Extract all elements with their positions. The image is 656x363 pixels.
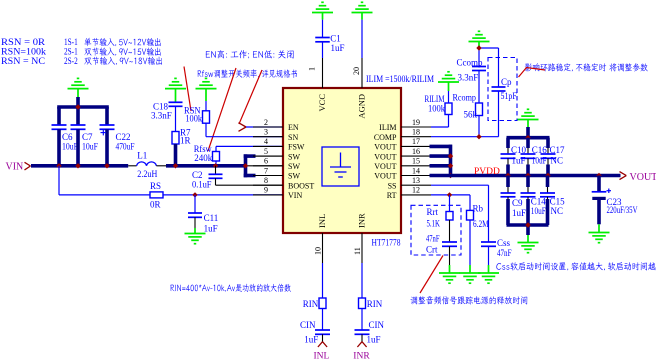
pin 7 SW [253,175,283,177]
capacitor C15 NC [546,176,550,188]
svg-text:10uF: 10uF [62,142,78,152]
svg-text:2S-2: 2S-2 [64,56,78,66]
capacitor C1 1uF [322,20,324,38]
dashed box around Cp [488,58,517,121]
svg-text:RIN: RIN [303,299,319,309]
ground above RILIM [438,81,459,83]
op-amp U1 HT71778 body [283,88,401,233]
svg-text:1uF: 1uF [331,43,345,53]
svg-text:VIN: VIN [6,161,24,172]
capacitor C10 1uF [506,138,510,148]
svg-text:47nF: 47nF [426,234,440,244]
junction VIN/C22 [104,163,109,168]
svg-text:100k: 100k [428,103,445,113]
svg-text:RT: RT [387,191,397,200]
pin 14 VOUT [401,175,431,177]
svg-text:9: 9 [264,186,268,195]
pin 11 INR [361,233,363,263]
connector EN input [239,123,247,127]
wire SW bracket to pins 5,6,7 [244,154,248,177]
junction comp top [476,45,481,50]
capacitor C2 0.1uF [215,166,217,175]
ground below output caps [527,235,529,243]
capacitor Ccomp 3.3nF [472,66,486,68]
wire RSN to SN pin3 [205,123,207,137]
svg-text:1uF: 1uF [204,223,218,233]
svg-text:C6: C6 [62,132,73,142]
svg-text:3: 3 [264,128,268,137]
wire RS to VIN pin9 [163,194,283,196]
svg-text:Crt: Crt [426,244,438,254]
svg-text:16: 16 [412,147,420,156]
IC internal ground symbol [322,147,359,186]
svg-text:NC: NC [551,206,564,216]
capacitor C14 10uF [526,176,530,188]
svg-text:VOUT: VOUT [630,172,656,183]
svg-text:Ccomp: Ccomp [457,58,483,68]
ground above AGND pin20 [352,12,373,14]
resistor RS 0R [150,192,163,198]
pin 5 SW [253,155,283,157]
svg-text:Cp: Cp [501,77,512,87]
resistor RIN (INL) [319,298,326,309]
capacitor Crt 47nF [449,220,451,242]
ground below C23 [598,224,600,232]
svg-text:8: 8 [264,176,268,185]
ground above output caps [518,119,539,121]
resistor Rrt 5.1K [449,195,451,212]
pin 1 VCC [322,58,324,88]
callout line to Crt [420,256,443,294]
svg-text:EN: EN [288,123,299,132]
svg-text:7: 7 [264,166,268,175]
svg-text:20: 20 [352,67,361,75]
svg-text:11: 11 [353,247,362,255]
svg-text:C17: C17 [550,145,566,155]
capacitor C6 [52,124,67,126]
svg-text:1: 1 [308,67,317,71]
svg-text:ILIM: ILIM [379,123,396,132]
pin 4 FSW [253,145,283,147]
wire comp top node [478,48,480,67]
svg-text:NC: NC [551,156,564,166]
svg-text:2: 2 [264,118,268,127]
svg-text:13: 13 [412,176,420,185]
svg-text:19: 19 [412,118,420,127]
wire pin to RIN (INL) [322,263,324,298]
resistor Rb 6.2M [469,195,471,211]
junction SW bracket [243,163,248,168]
pin 17 VOUT [401,145,431,147]
callout line to RSN [184,67,191,112]
svg-text:SS: SS [388,181,397,190]
svg-text:VOUT: VOUT [374,143,396,152]
capacitor Css 47nF [481,241,496,243]
svg-text:15: 15 [412,157,420,166]
ground below Crt [449,265,451,273]
ground above C1 [312,12,333,14]
svg-text:12: 12 [412,186,420,195]
wire bottom cap bus [507,223,549,227]
svg-text:51pF: 51pF [501,91,517,101]
svg-text:1S-1: 1S-1 [64,37,78,47]
svg-text:1uF: 1uF [512,156,526,166]
pin 2 EN [253,126,283,128]
capacitor C11 1uF [194,195,196,213]
svg-text:56k: 56k [464,110,478,120]
junction Rfsw/C2/SW [213,163,218,168]
svg-text:SW: SW [288,172,300,181]
svg-text:Rrt: Rrt [427,207,439,217]
port VOUT [620,172,627,176]
svg-text:5.1K: 5.1K [427,219,441,229]
svg-text:1uF: 1uF [304,334,318,344]
capacitor C7 [76,107,80,125]
resistor Rcomp 56k [476,103,483,116]
capacitor Cp 51pF [492,86,506,88]
junction bracket p14 [448,173,453,178]
svg-text:10uF: 10uF [532,156,547,166]
svg-text:C11: C11 [204,213,219,223]
svg-text:5: 5 [264,147,268,156]
svg-text:0R: 0R [150,199,161,209]
junction bracket p15 [448,163,453,168]
resistor RIN (INR) [359,298,366,309]
svg-text:FSW: FSW [288,143,305,152]
resistor R7 1R [172,132,179,145]
note EN function [206,50,294,58]
resistor RILIM 100k [445,103,452,115]
svg-text:470uF: 470uF [116,142,135,152]
svg-text:10uF: 10uF [531,206,546,216]
wire pin to RIN (INR) [361,263,363,298]
wire R7 to SW [174,144,178,166]
pin 20 AGND [361,58,363,88]
wire Cp to COMP [498,91,500,137]
wire EN to pin2 [246,126,283,128]
svg-text:14: 14 [412,166,420,175]
wire VOUT pins bracket [449,145,453,176]
svg-text:RSN = NC: RSN = NC [1,56,45,66]
wire VIN bus [31,164,128,168]
svg-text:2.2uH: 2.2uH [137,169,157,179]
svg-text:RIN: RIN [367,299,383,309]
svg-text:C7: C7 [82,132,93,142]
svg-text:COMP: COMP [374,133,397,142]
dashed box around Rrt/Crt [411,205,461,255]
wire SW node [166,164,246,168]
svg-text:10uF: 10uF [82,142,98,152]
wire C2 to BOOST pin8 [215,178,217,185]
svg-text:1R: 1R [180,136,191,146]
pin 8 BOOST [253,184,283,186]
svg-text:RSN = 0R: RSN = 0R [1,37,45,47]
pin 13 SS [401,184,431,186]
svg-text:PVDD: PVDD [474,167,500,177]
svg-text:L1: L1 [137,151,147,161]
svg-text:VIN: VIN [288,191,302,200]
note Crt release time [410,296,527,304]
junction VIN/C6 [56,163,61,168]
svg-text:INR: INR [353,352,370,362]
ground below C11 [194,228,196,234]
capacitor C16 10uF [526,138,530,148]
inductor L1 2.2uH [128,165,136,167]
note Rfsw function [197,69,297,78]
wire RT pin12 [431,194,470,196]
svg-text:3.3nF: 3.3nF [458,73,479,83]
capacitor CIN (INR) 1uF [361,309,363,331]
svg-text:RS: RS [150,181,161,191]
svg-text:Rb: Rb [473,203,484,213]
svg-text:VCC: VCC [317,94,327,112]
svg-text:C15: C15 [550,197,566,207]
svg-text:INL: INL [314,352,330,362]
note Css soft-start [496,262,656,270]
svg-text:ILIM =1500k/RILIM: ILIM =1500k/RILIM [366,75,434,85]
capacitor C9 1uF [506,176,510,188]
junction VIN/C7 [75,163,80,168]
wire SS pin13 to Css [431,184,489,186]
pin 18 COMP [401,136,431,138]
connector INL [318,342,323,347]
junction bottom cap bus [525,222,530,227]
svg-text:AGND: AGND [356,94,366,119]
svg-text:SW: SW [288,152,300,161]
ground below Css [488,265,490,273]
ground input bank [68,88,89,90]
wire top cap bus [507,136,550,140]
svg-text:1uF: 1uF [367,334,381,344]
pin 3 SN [253,136,283,138]
ground above C18 [165,88,186,90]
svg-text:100k: 100k [185,114,202,124]
callout line to Rfsw [208,68,236,151]
svg-text:18: 18 [412,128,420,137]
capacitor C17 NC [546,138,550,148]
svg-text:VOUT: VOUT [374,172,396,181]
ground above RSN [196,88,217,90]
pin 15 VOUT [401,165,431,167]
wire FSW pin4 [216,145,283,147]
note loop stability [525,63,648,71]
svg-text:240k: 240k [194,153,213,163]
wire Rcomp to COMP [478,116,480,137]
resistor RSN 100k [203,111,210,123]
junction Rcomp/COMP [476,134,481,139]
svg-text:6.2M: 6.2M [473,219,489,229]
ground below Rb [469,265,471,273]
pin 10 INL [322,233,324,263]
svg-text:CIN: CIN [369,320,385,330]
svg-text:SN: SN [288,133,298,142]
svg-text:1uF: 1uF [512,208,526,218]
wire Rfsw to SW [215,161,217,166]
wire COMP pin18 [431,136,499,138]
pin 16 VOUT [401,155,431,157]
connector INR [357,342,362,347]
callout line to EN pin [239,70,262,124]
svg-text:6: 6 [264,157,268,166]
svg-text:HT71778: HT71778 [372,239,401,249]
resistor Rfsw 240k [215,146,217,151]
svg-text:INL: INL [317,214,327,228]
ground above comp network [469,41,490,43]
svg-text:220uF/35V: 220uF/35V [607,205,638,215]
svg-text:C22: C22 [116,132,131,142]
svg-text:VOUT: VOUT [374,162,396,171]
wire RILIM to ILIM pin19 [448,115,450,128]
wire input cap top bus [57,105,109,109]
svg-text:10: 10 [313,247,322,255]
junction PVDD/C17 [545,173,550,178]
note RIN formula [170,284,291,292]
junction top cap bus [525,135,530,140]
svg-text:CIN: CIN [300,320,316,330]
capacitor C18 3.3nF [169,101,183,103]
junction bracket p16 [448,153,453,158]
svg-text:Css: Css [497,238,511,248]
wire Rb to ground [469,220,471,265]
svg-text:SW: SW [288,162,300,171]
capacitor C23 220uF/35V polarized [597,176,601,192]
pin 12 RT [401,194,431,196]
pin 6 SW [253,165,283,167]
junction PVDD/C23 [596,173,601,178]
callout line to Cp dashed box [519,68,546,78]
junction RT/Rrt [447,192,452,197]
svg-text:VOUT: VOUT [374,152,396,161]
svg-text:3.3nF: 3.3nF [151,110,172,120]
svg-text:Rcomp: Rcomp [453,93,477,103]
junction PVDD/C16 [525,173,530,178]
wire PVDD rail [430,174,621,178]
svg-text:47nF: 47nF [497,248,512,258]
svg-text:BOOST: BOOST [288,181,314,190]
wire VIN to RS [58,166,60,195]
capacitor C22 (polarized) [100,124,115,126]
svg-text:17: 17 [412,137,420,146]
wire Ccomp to Rcomp [478,71,480,104]
junction PVDD/C10 [505,173,510,178]
svg-text:C9: C9 [512,198,523,208]
svg-text:INR: INR [356,213,366,228]
junction top bus [75,104,80,109]
svg-text:4: 4 [264,137,268,146]
pin 9 VIN [253,194,283,196]
svg-text:C14: C14 [531,197,547,207]
pin 19 ILIM [401,126,431,128]
junction C11 tap [192,192,197,197]
capacitor CIN (INL) 1uF [322,309,324,331]
junction R7/SW [173,163,178,168]
svg-text:0.1uF: 0.1uF [192,179,212,189]
